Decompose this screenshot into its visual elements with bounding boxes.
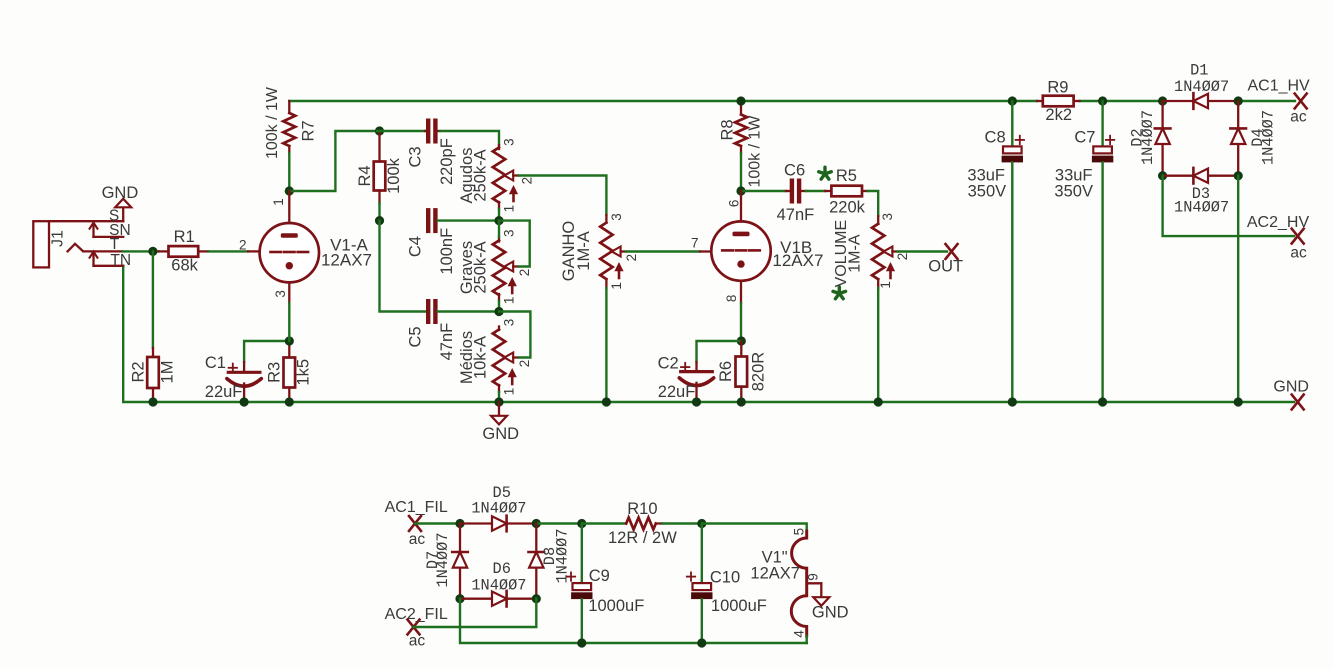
capacitor C3 220pF [377, 119, 456, 185]
wire GANHO wiper to V1B grid pin 7 [626, 250, 700, 252]
junction R3 at GND rail [285, 397, 294, 406]
svg-text:68k: 68k [171, 256, 198, 274]
junction D3/D4 node [1234, 171, 1243, 180]
svg-text:2: 2 [239, 237, 247, 252]
svg-text:J1: J1 [49, 230, 66, 247]
junction D1/D4 node [1234, 96, 1243, 105]
potentiometer VOLUME 1M-A (with asterisk) [833, 213, 910, 299]
svg-text:100k / 1W: 100k / 1W [747, 115, 764, 188]
junction D5/D7 node [455, 519, 464, 528]
svg-text:8: 8 [724, 295, 739, 303]
wire input node down to R2 [152, 251, 154, 348]
net flag AC1_HV [1247, 78, 1310, 126]
wire B+ top rail left segment [289, 100, 1037, 102]
svg-text:1: 1 [501, 388, 516, 396]
resistor R5 220k (with asterisk) [819, 167, 868, 216]
svg-text:220pF: 220pF [438, 138, 456, 185]
net flag OUT [928, 244, 963, 275]
svg-text:1N4ØØ7: 1N4ØØ7 [1174, 78, 1229, 96]
svg-text:GND: GND [812, 604, 849, 622]
capacitor C8 33uF 350V [967, 101, 1024, 402]
wire Medios bottom to GND rail [498, 392, 500, 402]
junction D6/D8 node [532, 594, 541, 603]
svg-text:2: 2 [624, 254, 639, 262]
capacitor C2 22uF [658, 341, 742, 401]
svg-text:250k-A: 250k-A [471, 241, 489, 293]
potentiometer GANHO 1M-A [560, 213, 639, 289]
capacitor C5 47nF [406, 299, 456, 360]
wire V1-A cathode to C1/R3 node [288, 303, 290, 341]
resistor R6 820R [717, 341, 767, 400]
svg-text:ac: ac [409, 633, 426, 650]
svg-text:C8: C8 [985, 129, 1006, 147]
connector J1 (input jack) [33, 207, 131, 269]
svg-text:1M-A: 1M-A [847, 234, 864, 273]
junction V1-A plate node [285, 186, 294, 195]
wire D4 node to GND rail [1237, 176, 1239, 402]
junction D5/D8 node [532, 519, 541, 528]
svg-text:2k2: 2k2 [1045, 106, 1072, 124]
svg-text:AC2_HV: AC2_HV [1247, 214, 1310, 231]
ground symbol GND (heater) [812, 597, 849, 621]
svg-text:1M: 1M [158, 361, 176, 384]
wire R4 bottom to C4 node [378, 203, 380, 221]
resistor R1 68k [159, 228, 209, 274]
wire C3 to Agudos pot [440, 131, 499, 145]
junction at GND rail right [1234, 397, 1243, 406]
svg-text:GND: GND [482, 425, 519, 443]
svg-text:47nF: 47nF [438, 323, 456, 361]
svg-text:3: 3 [609, 213, 624, 221]
junction GANHO at GND rail [602, 397, 611, 406]
diode D3 1N4007 [1163, 168, 1239, 216]
wire Agudos wiper to GANHO [519, 176, 607, 216]
resistor R4 100k [356, 131, 403, 203]
svg-text:22uF: 22uF [658, 383, 696, 401]
junction R2 at GND rail [148, 397, 157, 406]
svg-text:T: T [110, 236, 120, 253]
svg-text:2: 2 [519, 177, 534, 185]
svg-text:C9: C9 [589, 567, 610, 585]
wire V1B cathode down [740, 303, 742, 341]
svg-text:7: 7 [691, 236, 699, 251]
svg-text:C2: C2 [658, 354, 679, 372]
wire Graves terminal3 loop to wiper [499, 221, 530, 267]
svg-text:AC1_HV: AC1_HV [1247, 78, 1310, 95]
svg-text:3: 3 [501, 138, 516, 146]
wire R8 to V1B plate node [740, 153, 742, 191]
wire Medios terminal3 loop to wiper [499, 312, 530, 358]
resistor R10 12R/2W [582, 500, 677, 547]
junction Graves/C5/Medios node [494, 307, 503, 316]
svg-text:3: 3 [501, 229, 516, 237]
resistor R7 100k/1W [264, 86, 317, 159]
svg-text:12AX7: 12AX7 [772, 251, 823, 270]
triode V1-A 12AX7 [239, 191, 372, 303]
junction C7 at GND rail [1098, 397, 1107, 406]
svg-text:GND: GND [1273, 378, 1309, 395]
wire AC1_FIL to bridge [415, 522, 458, 524]
diode D5 1N4007 [460, 484, 536, 532]
svg-text:12R / 2W: 12R / 2W [608, 529, 677, 547]
svg-text:1N4ØØ7: 1N4ØØ7 [1139, 110, 1157, 165]
wire AC2_HV [1163, 176, 1294, 236]
svg-text:R6: R6 [717, 361, 735, 382]
svg-text:2: 2 [895, 253, 910, 261]
wire R10 to C10 [662, 522, 702, 524]
capacitor C10 1000uF [687, 524, 767, 644]
svg-text:1N4ØØ7: 1N4ØØ7 [434, 532, 452, 587]
wire plate node to C6 [741, 190, 786, 192]
wire heater bottom [806, 636, 808, 643]
svg-text:R3: R3 [265, 362, 283, 383]
junction C8 at GND rail [1008, 397, 1017, 406]
net flag GND right [1273, 378, 1309, 409]
svg-text:1N4ØØ7: 1N4ØØ7 [471, 499, 526, 517]
svg-text:C3: C3 [406, 146, 424, 167]
junction D2/D3 node [1158, 171, 1167, 180]
svg-text:2: 2 [517, 269, 532, 277]
triode V1B 12AX7 [691, 191, 823, 303]
svg-text:22uF: 22uF [205, 383, 243, 401]
junction D6/D7 node [455, 594, 464, 603]
svg-text:1: 1 [501, 297, 516, 305]
junction C10 bottom [697, 638, 706, 647]
svg-text:10k-A: 10k-A [471, 336, 489, 379]
wire C10 to heater [702, 524, 807, 532]
svg-text:1k5: 1k5 [294, 359, 312, 386]
svg-text:TN: TN [110, 252, 131, 269]
wire AC1_HV segment after D1 [1238, 100, 1295, 102]
svg-text:R1: R1 [174, 228, 195, 246]
wire C5 to Medios node [438, 310, 497, 312]
svg-text:4: 4 [791, 630, 806, 638]
net flag AC1_FIL [385, 499, 448, 548]
potentiometer Medios 10k-A [458, 319, 532, 396]
junction C2 at GND rail [692, 397, 701, 406]
junction R4 top / C3 node [375, 126, 384, 135]
svg-text:1: 1 [609, 282, 624, 290]
svg-text:1N4ØØ7: 1N4ØØ7 [554, 528, 572, 583]
svg-text:100nF: 100nF [438, 228, 456, 275]
resistor R8 100k/1W [718, 101, 763, 188]
svg-text:1: 1 [271, 198, 286, 206]
net flag AC2_HV [1247, 214, 1310, 261]
svg-text:R4: R4 [356, 165, 374, 186]
capacitor C7 33uF 350V [1054, 101, 1114, 402]
junction C9 top [577, 519, 586, 528]
capacitor C9 1000uF [567, 524, 644, 644]
diode D6 1N4007 [460, 560, 536, 607]
wire Graves bottom to C5 node [498, 301, 500, 312]
svg-text:1000uF: 1000uF [711, 597, 767, 615]
svg-text:R9: R9 [1047, 79, 1068, 97]
diode D4 1N4007 [1230, 101, 1277, 176]
junction V1B cathode node [737, 336, 746, 345]
svg-text:R8: R8 [718, 119, 736, 140]
resistor R9 2k2 [1037, 79, 1080, 125]
wire Agudos bottom to C4 node [498, 209, 500, 221]
svg-text:R7: R7 [299, 120, 317, 141]
junction D1/D2 node [1158, 96, 1167, 105]
svg-text:C4: C4 [406, 236, 424, 257]
capacitor C6 47nF [777, 161, 815, 223]
svg-text:3: 3 [501, 319, 516, 327]
svg-text:47nF: 47nF [777, 206, 815, 224]
junction input node [148, 247, 157, 256]
svg-text:3: 3 [273, 290, 288, 298]
junction C1 at GND rail [240, 397, 249, 406]
svg-text:ac: ac [1290, 244, 1307, 261]
net flag AC2_FIL [385, 606, 448, 650]
wire C6 to R5 [806, 190, 825, 192]
svg-text:250k-A: 250k-A [471, 149, 489, 201]
resistor R3 1k5 [265, 341, 312, 400]
ground symbol GND (input jack sleeve) [102, 184, 139, 221]
wire R1 to V1-A grid pin 2 [209, 250, 249, 252]
svg-text:D1: D1 [1190, 61, 1208, 79]
junction cathode node V1-A [285, 336, 294, 345]
svg-text:GND: GND [102, 184, 139, 202]
svg-text:OUT: OUT [928, 257, 963, 275]
svg-text:R5: R5 [836, 167, 857, 185]
diode D8 1N4007 [529, 524, 572, 599]
junction C8 at B+ rail [1008, 96, 1017, 105]
wire plate node to R4/C3 [289, 131, 377, 191]
svg-text:D6: D6 [493, 560, 511, 578]
potentiometer Agudos 250k-A [458, 138, 535, 212]
junction Agudos/C4/Graves node [494, 216, 503, 225]
svg-text:3: 3 [880, 213, 895, 221]
wire R5 to VOLUME pot [868, 191, 879, 216]
svg-text:ac: ac [409, 531, 426, 548]
svg-text:AC1_FIL: AC1_FIL [385, 499, 448, 516]
tube heater V1" 12AX7 [750, 528, 821, 638]
diode D1 1N4007 [1163, 61, 1239, 108]
svg-text:C7: C7 [1074, 129, 1095, 147]
wire Graves top lead [498, 221, 500, 237]
wire AC2_FIL to bridge [414, 599, 537, 627]
junction V1B plate node [736, 186, 745, 195]
wire VOLUME wiper to OUT [898, 250, 947, 252]
junction R8 at B+ rail [736, 96, 745, 105]
svg-text:220k: 220k [829, 198, 866, 216]
svg-text:350V: 350V [968, 182, 1007, 200]
svg-text:5: 5 [791, 528, 806, 536]
svg-text:ac: ac [1290, 109, 1307, 126]
wire bridge output to C9 [536, 522, 582, 524]
capacitor C4 100nF [406, 208, 456, 274]
junction C10 top [697, 519, 706, 528]
svg-text:12AX7: 12AX7 [321, 250, 372, 269]
ground symbol GND (tone stack) [482, 402, 519, 443]
junction Medios at GND rail [494, 397, 503, 406]
junction C7 at B+ rail [1098, 96, 1107, 105]
svg-text:AC2_FIL: AC2_FIL [385, 606, 448, 623]
svg-text:12AX7: 12AX7 [750, 564, 800, 582]
junction VOLUME at GND rail [874, 397, 883, 406]
diode D7 1N4007 [424, 524, 468, 599]
svg-text:1: 1 [878, 281, 893, 289]
svg-text:820R: 820R [749, 352, 767, 392]
svg-text:2: 2 [517, 360, 532, 368]
resistor R2 1M [129, 348, 176, 400]
junction R6 at GND rail [737, 397, 746, 406]
svg-text:100k / 1W: 100k / 1W [264, 86, 281, 159]
svg-text:C6: C6 [784, 161, 805, 179]
svg-text:R2: R2 [129, 361, 147, 382]
wire C4 node down to C5 wire [380, 221, 426, 312]
svg-text:1N4ØØ7: 1N4ØØ7 [471, 576, 526, 594]
svg-text:6: 6 [726, 200, 741, 208]
svg-text:C10: C10 [710, 568, 740, 586]
diode D2 1N4007 [1128, 101, 1170, 176]
junction C9 bottom [577, 638, 586, 647]
svg-text:R10: R10 [627, 500, 657, 518]
wire input T net to R1 [123, 250, 159, 252]
junction R4 bottom / C4 node [375, 216, 384, 225]
potentiometer Graves 250k-A [458, 229, 532, 304]
svg-text:1M-A: 1M-A [575, 231, 593, 270]
svg-text:1N4ØØ7: 1N4ØØ7 [1260, 110, 1278, 165]
svg-text:C5: C5 [406, 326, 424, 347]
wire GND rail (bottom of preamp section) [123, 266, 1294, 402]
capacitor C1 22uF [205, 341, 290, 401]
wire R7 to plate node [288, 153, 290, 191]
svg-text:C1: C1 [205, 354, 226, 372]
svg-text:9: 9 [806, 573, 821, 581]
wire B+ rail R9 to C7/D2 segment [1080, 100, 1163, 102]
svg-text:100k: 100k [385, 157, 403, 194]
wire bridge negative to bottom rail [460, 599, 807, 643]
wire C4 to Graves node [438, 219, 497, 221]
svg-text:1000uF: 1000uF [588, 597, 644, 615]
wire GANHO bottom to GND rail [605, 288, 607, 402]
svg-text:350V: 350V [1054, 182, 1093, 200]
svg-text:1N4ØØ7: 1N4ØØ7 [1174, 198, 1229, 216]
wire VOLUME bottom to GND rail [877, 288, 879, 402]
svg-text:1: 1 [501, 205, 516, 213]
